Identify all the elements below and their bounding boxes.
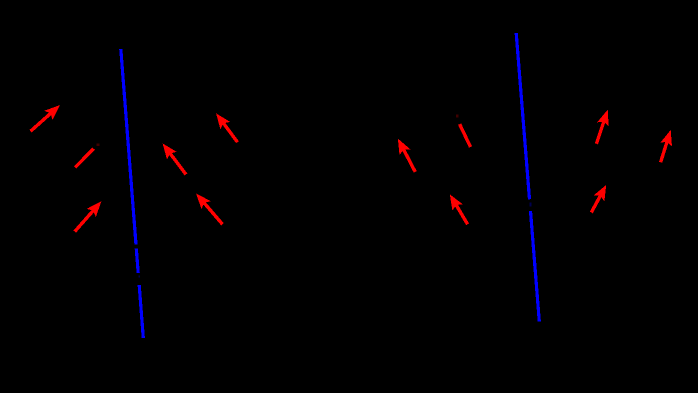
wavefront line L1 upper segment xyxy=(121,49,136,245)
wavefront line L2 upper segment xyxy=(516,33,529,199)
red arrow A2 shaft (head hidden) xyxy=(75,149,94,168)
faint remnant of C2 arrowhead xyxy=(456,115,459,118)
red arrow C1 (left of L2, upper) xyxy=(403,149,415,172)
red arrow D1 (right of L2, upper) xyxy=(596,121,604,144)
red arrow A3 (left of L1, lower) xyxy=(75,210,94,231)
red arrow B3 (right of L1, lower) xyxy=(204,203,223,225)
red arrow B1 (right of L1, upper) xyxy=(223,123,237,142)
wavefront line L1 middle segment xyxy=(136,249,138,274)
red arrow C2 shaft (head hidden) xyxy=(460,124,471,147)
red arrow D2 (right of L2, far right) xyxy=(661,141,668,162)
red arrow D3 (right of L2, lower) xyxy=(591,195,600,212)
red arrow B2 (right of L1, middle) xyxy=(170,153,186,175)
faint remnant in L1 lower gap xyxy=(138,276,140,278)
red arrow C3 (left of L2, lower) xyxy=(456,205,468,225)
wavefront line L1 lower segment xyxy=(139,285,143,338)
faint remnant in L2 gap xyxy=(530,203,532,207)
red arrow A1 (left of L1, upper) xyxy=(31,113,51,131)
wavefront line L2 lower segment xyxy=(531,211,540,322)
faint remnant of A2 arrowhead xyxy=(97,144,100,147)
